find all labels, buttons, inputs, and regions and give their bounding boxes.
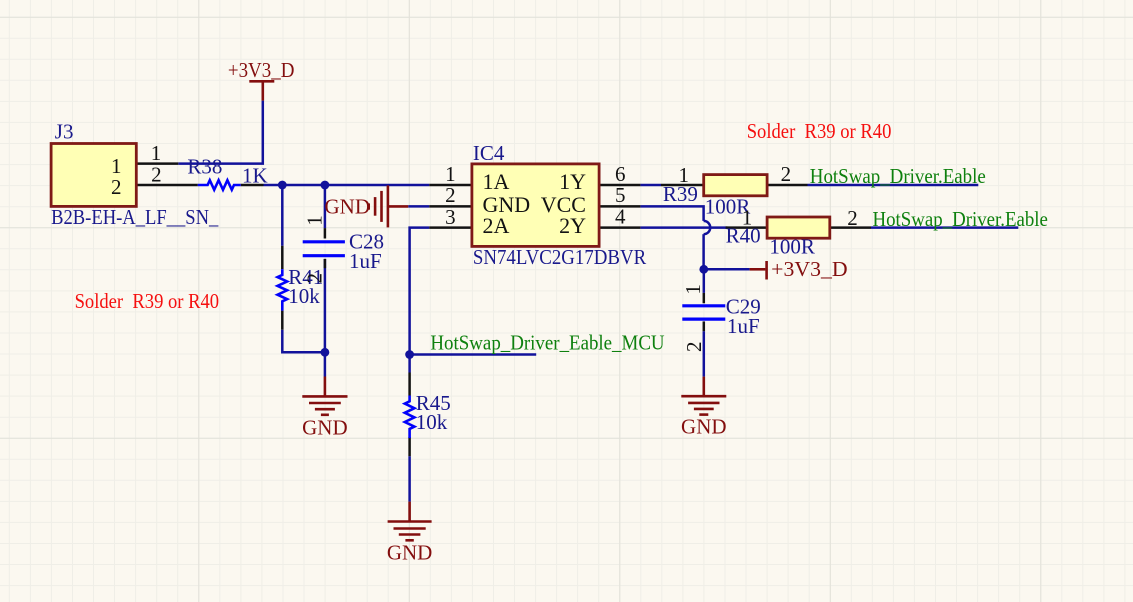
svg-text:J3: J3 xyxy=(55,120,74,144)
svg-text:10k: 10k xyxy=(288,284,320,308)
svg-text:10k: 10k xyxy=(416,410,448,434)
svg-text:HotSwap_Driver_Eable_MCU: HotSwap_Driver_Eable_MCU xyxy=(430,330,664,354)
svg-text:HotSwap_Driver.Eable: HotSwap_Driver.Eable xyxy=(873,207,1048,231)
svg-text:Solder R39 or R40: Solder R39 or R40 xyxy=(747,119,892,143)
svg-text:2: 2 xyxy=(151,163,162,187)
svg-text:2: 2 xyxy=(781,162,792,186)
svg-text:3: 3 xyxy=(445,205,456,229)
svg-text:R38: R38 xyxy=(187,155,222,179)
svg-text:1: 1 xyxy=(681,284,705,295)
svg-text:+3V3_D: +3V3_D xyxy=(228,58,295,82)
svg-text:2: 2 xyxy=(847,206,858,230)
svg-text:1uF: 1uF xyxy=(349,249,382,273)
svg-text:HotSwap_Driver.Eable: HotSwap_Driver.Eable xyxy=(810,164,986,188)
svg-text:1A: 1A xyxy=(483,169,510,194)
svg-text:IC4: IC4 xyxy=(473,141,505,165)
svg-text:GND: GND xyxy=(302,416,348,440)
svg-text:1: 1 xyxy=(445,162,456,186)
svg-text:4: 4 xyxy=(615,204,626,228)
svg-text:2: 2 xyxy=(111,175,122,199)
svg-text:SN74LVC2G17DBVR: SN74LVC2G17DBVR xyxy=(473,245,646,269)
svg-text:B2B-EH-A_LF__SN_: B2B-EH-A_LF__SN_ xyxy=(51,205,219,229)
svg-text:Solder R39 or R40: Solder R39 or R40 xyxy=(75,289,220,313)
svg-text:2: 2 xyxy=(445,183,456,207)
svg-text:GND: GND xyxy=(387,541,433,565)
svg-text:6: 6 xyxy=(615,162,626,186)
svg-text:GND: GND xyxy=(681,415,727,439)
svg-text:1K: 1K xyxy=(242,164,268,188)
svg-text:100R: 100R xyxy=(769,235,815,259)
svg-text:1: 1 xyxy=(151,141,162,165)
svg-text:1: 1 xyxy=(303,215,327,226)
svg-text:2: 2 xyxy=(303,273,327,284)
svg-text:R39: R39 xyxy=(663,182,698,206)
svg-text:+3V3_D: +3V3_D xyxy=(771,257,847,281)
svg-text:1Y: 1Y xyxy=(559,169,586,194)
svg-text:2A: 2A xyxy=(483,213,510,238)
svg-text:GND: GND xyxy=(325,194,371,218)
svg-text:2: 2 xyxy=(682,342,706,353)
svg-text:1uF: 1uF xyxy=(727,314,760,338)
svg-text:R40: R40 xyxy=(726,224,761,248)
svg-text:2Y: 2Y xyxy=(559,213,586,238)
